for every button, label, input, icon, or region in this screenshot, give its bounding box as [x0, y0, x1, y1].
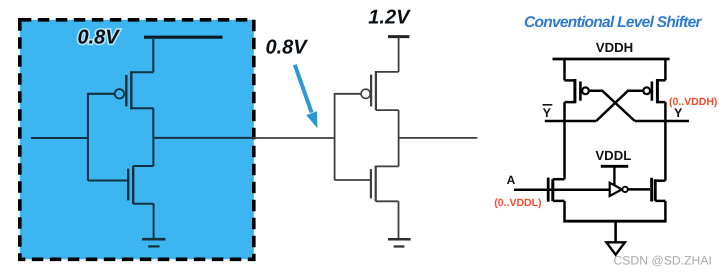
power symbol 1.2V T-bar [388, 35, 409, 38]
wire: MP2 drain down to MN2 drain (node Y vertical) [664, 102, 667, 181]
wire: input gate bar (1.2V inverter) [334, 93, 336, 180]
transistor M1 PMOS (0.8V inverter) [115, 71, 154, 109]
blue annotation arrow [295, 65, 318, 128]
svg-text:Y: Y [674, 106, 683, 120]
wire: output line inside box [153, 137, 253, 139]
svg-text:Y: Y [543, 106, 552, 120]
wire: rail to ground symbol [614, 221, 617, 242]
transistor MN1 NMOS (left) [548, 178, 564, 202]
svg-text:(0..VDDH): (0..VDDH) [669, 96, 717, 108]
label A [507, 173, 516, 187]
svg-text:CSDN @SD.ZHAI: CSDN @SD.ZHAI [614, 254, 712, 268]
svg-text:VDDH: VDDH [596, 40, 633, 55]
wire: T-bar to PMOS source [398, 37, 400, 72]
svg-text:0.8V: 0.8V [266, 36, 309, 58]
wire: M4 gate lead [335, 179, 370, 181]
inverter U1 (triangle with bubble) [610, 183, 628, 196]
label VDDL [595, 148, 631, 163]
wire: M3 gate lead [335, 93, 362, 95]
wire: input gate bar (0.8V inverter) [87, 93, 89, 181]
wire: ground rail [563, 220, 666, 223]
title: Conventional Level Shifter [524, 14, 702, 31]
supply label 1.2V (middle inverter) [368, 7, 411, 29]
wire: M1 gate lead [88, 93, 115, 95]
ground (1.2V inverter) [388, 239, 411, 246]
transistor MP2 PMOS (right, cross-coupled) [643, 79, 665, 103]
wire: signal line between inverters [253, 137, 335, 139]
wire: input line (0.8V inverter) [31, 137, 88, 139]
node Y horizontal wire [635, 120, 689, 123]
wire: output node to M4 drain [398, 138, 400, 167]
supply label 0.8V (left inverter) [78, 26, 121, 48]
wire: input A to MN1 gate and inverter input [514, 189, 610, 192]
transistor MP1 PMOS (left, cross-coupled) [565, 79, 589, 103]
svg-text:(0..VDDL): (0..VDDL) [494, 197, 541, 209]
wire: U1 output to MN2 gate [628, 188, 650, 191]
wire: M3 drain to output node [398, 110, 400, 138]
label Y [674, 106, 683, 120]
wire: MP1 gate to node Y (cross-couple) [589, 91, 635, 121]
transistor M2 NMOS (0.8V inverter) [128, 166, 153, 204]
power symbol VDDL T-bar [601, 166, 628, 185]
label (0..VDDH) [669, 96, 717, 108]
label VDDH [596, 40, 633, 55]
label Ybar [543, 105, 553, 120]
transistor M3 PMOS (1.2V inverter) [361, 71, 399, 110]
annotation 0.8V at inverter input [266, 36, 309, 58]
wire: PMOS drain to output node [152, 108, 154, 138]
watermark CSDN [614, 254, 712, 268]
wire: MN2 source to ground rail [664, 201, 667, 221]
wire: NMOS source to ground [153, 204, 155, 239]
node Ybar horizontal wire [545, 120, 596, 123]
wire: M4 source to ground [398, 201, 400, 238]
wire: output node to NMOS drain [152, 138, 154, 166]
wire: rail to PMOS source [152, 37, 154, 72]
transistor M4 NMOS (1.2V inverter) [371, 166, 399, 202]
svg-text:1.2V: 1.2V [368, 7, 411, 29]
transistor MN2 NMOS (right) [652, 178, 666, 202]
wire: MP2 gate to node Ybar (cross-couple) [596, 91, 643, 121]
ground (0.8V inverter) [142, 239, 166, 246]
wire: MN1 source to ground rail [563, 201, 566, 221]
svg-text:VDDL: VDDL [595, 148, 631, 163]
wire: output line (1.2V inverter) [399, 137, 478, 139]
svg-text:Conventional Level Shifter: Conventional Level Shifter [524, 14, 702, 31]
wire: rail to MP2 source [664, 59, 667, 80]
svg-text:0.8V: 0.8V [78, 26, 121, 48]
label (0..VDDL) [494, 197, 541, 209]
wire: rail to MP1 source [563, 59, 566, 80]
wire: VDDH rail [553, 58, 670, 61]
svg-text:A: A [507, 173, 516, 187]
wire: M2 gate lead [88, 179, 127, 181]
wire: VDD rail of 0.8V inverter [144, 36, 223, 39]
wire: MP1 drain down to MN1 drain (node Ybar vertical) [563, 102, 566, 179]
low-voltage domain box (blue dashed) [20, 20, 254, 259]
ground symbol (open triangle) [606, 242, 625, 254]
